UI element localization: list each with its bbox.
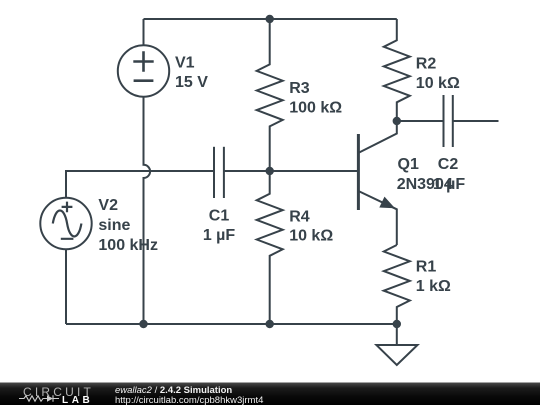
svg-text:R1: R1 <box>416 259 437 276</box>
node junction base node <box>266 167 274 175</box>
label Q1 2N3904 <box>397 156 453 193</box>
svg-text:Q1: Q1 <box>398 156 419 173</box>
svg-text:R3: R3 <box>289 80 310 97</box>
transistor Q1 <box>358 121 396 245</box>
resistor R1 <box>384 245 410 324</box>
label V2 sine 100 kHz <box>98 197 158 254</box>
resistor R2 <box>384 19 410 121</box>
node junction bottom rail / R1 / ground <box>393 320 401 328</box>
svg-text:100 kHz: 100 kHz <box>98 237 158 254</box>
svg-text:15 V: 15 V <box>175 74 208 91</box>
svg-text:C1: C1 <box>209 208 230 225</box>
wire collector node to C2 <box>397 120 444 122</box>
label C1 1 uF <box>203 208 236 245</box>
logo circuit squiggle with diode <box>19 395 59 401</box>
svg-text:10 kΩ: 10 kΩ <box>416 75 460 92</box>
svg-text:10 kΩ: 10 kΩ <box>289 227 333 244</box>
wire C2 output <box>453 120 499 122</box>
label C2 1 uF <box>433 156 466 193</box>
svg-text:LAB: LAB <box>62 395 93 405</box>
wire C1 to base node <box>224 170 270 172</box>
voltage source V1 <box>118 45 169 96</box>
wire V1 bottom stem with hop over V2 wire <box>144 97 151 324</box>
voltage source V2 <box>40 198 91 249</box>
wire bottom rail <box>66 323 397 325</box>
svg-text:1 µF: 1 µF <box>433 176 466 193</box>
svg-text:R2: R2 <box>416 56 437 73</box>
svg-text:1 µF: 1 µF <box>203 227 236 244</box>
node junction collector / C2 <box>393 117 401 125</box>
node junction top rail / R3 <box>266 15 274 23</box>
svg-text:R4: R4 <box>289 209 310 226</box>
ground <box>376 324 417 365</box>
wire V1 top stem <box>143 19 145 46</box>
wire top rail <box>144 18 397 20</box>
footer bar <box>0 383 540 405</box>
node junction bottom rail / V1 <box>139 320 147 328</box>
node junction bottom rail / R4 <box>266 320 274 328</box>
wire V2 bottom stem <box>65 249 67 324</box>
svg-text:V2: V2 <box>98 197 118 214</box>
svg-text:C2: C2 <box>438 156 459 173</box>
resistor R4 <box>257 171 283 324</box>
label V1 15 V <box>175 55 208 91</box>
svg-text:V1: V1 <box>175 55 195 72</box>
label R1 1 kOhm <box>416 259 451 295</box>
wire base node to Q1 base <box>270 170 359 172</box>
capacitor C1 <box>214 147 224 198</box>
label R2 10 kOhm <box>416 56 460 92</box>
capacitor C2 <box>444 95 453 147</box>
svg-text:100 kΩ: 100 kΩ <box>289 99 342 116</box>
svg-text:1 kΩ: 1 kΩ <box>416 278 451 295</box>
svg-text:sine: sine <box>98 217 130 234</box>
wire V2 top stem <box>66 171 214 198</box>
label R4 10 kOhm <box>289 209 333 245</box>
label R3 100 kOhm <box>289 80 342 117</box>
svg-text:http://circuitlab.com/cpb8hkw3: http://circuitlab.com/cpb8hkw3jrmt4 <box>115 395 263 405</box>
resistor R3 <box>257 19 283 171</box>
